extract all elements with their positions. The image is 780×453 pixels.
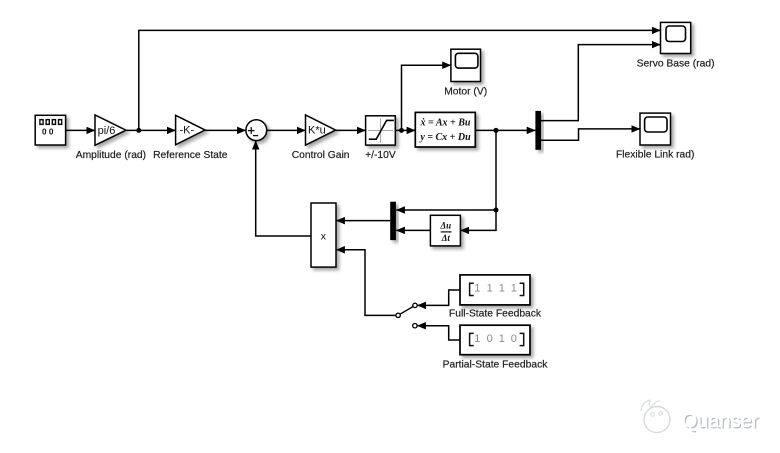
svg-text:0: 0	[487, 333, 493, 345]
svg-text:1: 1	[499, 333, 505, 345]
svg-text:Quanser: Quanser	[682, 410, 759, 432]
svg-text:y = Cx + Du: y = Cx + Du	[419, 132, 471, 143]
svg-text:pi/6: pi/6	[98, 125, 116, 137]
svg-text:+/-10V: +/-10V	[365, 150, 396, 161]
svg-text:Reference State: Reference State	[153, 150, 228, 161]
svg-text:0 0: 0 0	[42, 127, 54, 136]
svg-text:0: 0	[511, 333, 517, 345]
svg-text:ẋ = Ax + Bu: ẋ = Ax + Bu	[420, 118, 471, 129]
svg-text:Δt: Δt	[441, 233, 451, 243]
svg-text:Motor (V): Motor (V)	[444, 87, 487, 98]
svg-text:Δu: Δu	[439, 221, 451, 231]
svg-text:1: 1	[511, 283, 517, 295]
svg-text:1: 1	[474, 283, 480, 295]
svg-text:x: x	[321, 231, 327, 243]
svg-text:Full-State Feedback: Full-State Feedback	[449, 309, 542, 320]
svg-text:1: 1	[487, 283, 493, 295]
svg-text:1: 1	[499, 283, 505, 295]
svg-text:Servo Base (rad): Servo Base (rad)	[637, 59, 715, 70]
svg-text:Flexible Link rad): Flexible Link rad)	[616, 150, 694, 161]
svg-text:-K-: -K-	[179, 125, 194, 137]
svg-text:K*u: K*u	[308, 125, 326, 137]
svg-text:Amplitude (rad): Amplitude (rad)	[76, 150, 146, 161]
svg-text:Partial-State Feedback: Partial-State Feedback	[443, 360, 549, 371]
svg-text:Control Gain: Control Gain	[292, 150, 350, 161]
svg-text:1: 1	[474, 333, 480, 345]
